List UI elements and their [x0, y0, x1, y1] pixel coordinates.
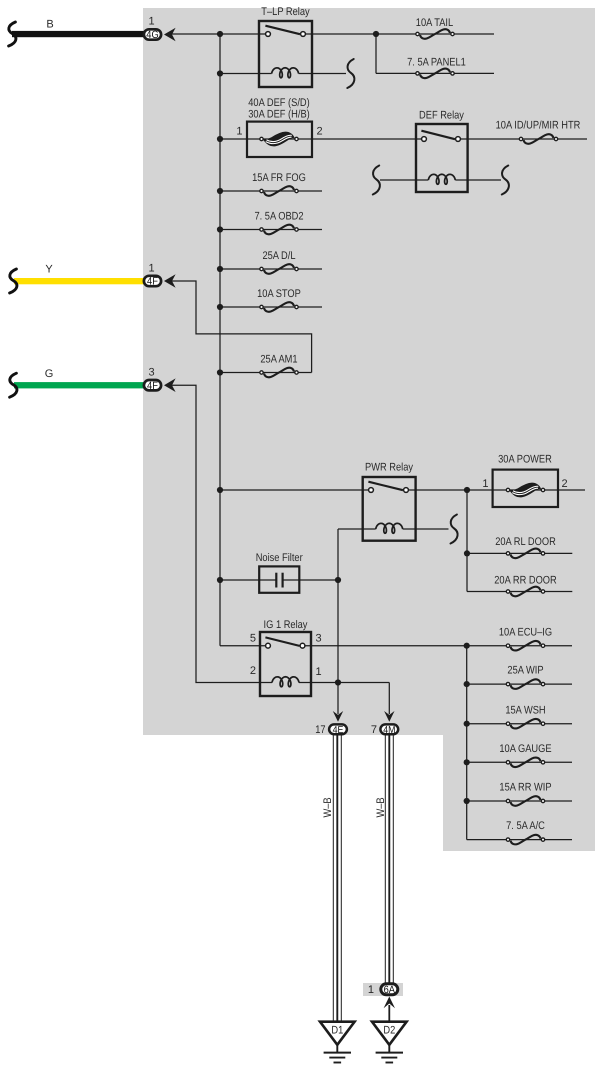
svg-text:17: 17 [315, 724, 325, 736]
svg-text:15A RR WIP: 15A RR WIP [499, 782, 551, 794]
svg-text:30A POWER: 30A POWER [498, 454, 552, 466]
svg-text:40A DEF (S/D): 40A DEF (S/D) [248, 97, 310, 109]
svg-text:T–LP Relay: T–LP Relay [261, 6, 310, 18]
svg-text:4M: 4M [383, 725, 395, 736]
svg-text:1: 1 [236, 126, 242, 138]
svg-text:4E: 4E [333, 725, 344, 736]
svg-text:7. 5A OBD2: 7. 5A OBD2 [254, 211, 303, 223]
svg-text:7: 7 [371, 724, 377, 736]
svg-text:4F: 4F [147, 276, 158, 288]
svg-text:7. 5A A/C: 7. 5A A/C [506, 820, 545, 832]
svg-text:10A GAUGE: 10A GAUGE [499, 743, 551, 755]
svg-text:IG 1 Relay: IG 1 Relay [264, 619, 308, 631]
svg-text:2: 2 [317, 126, 323, 138]
svg-text:1: 1 [368, 984, 374, 996]
svg-text:25A WIP: 25A WIP [507, 665, 543, 677]
svg-text:3: 3 [148, 367, 154, 379]
svg-text:1: 1 [482, 478, 488, 490]
svg-text:10A ID/UP/MIR HTR: 10A ID/UP/MIR HTR [496, 120, 581, 132]
svg-text:2: 2 [250, 665, 256, 677]
svg-text:W–B: W–B [322, 797, 334, 817]
svg-text:15A WSH: 15A WSH [505, 704, 545, 716]
svg-text:1: 1 [148, 16, 154, 28]
svg-text:7. 5A PANEL1: 7. 5A PANEL1 [407, 56, 466, 68]
svg-text:D1: D1 [331, 1024, 343, 1036]
svg-text:4F: 4F [147, 380, 158, 392]
svg-text:15A FR FOG: 15A FR FOG [252, 172, 306, 184]
svg-text:20A RR DOOR: 20A RR DOOR [494, 575, 557, 587]
svg-text:10A ECU–IG: 10A ECU–IG [499, 626, 552, 638]
svg-text:25A AM1: 25A AM1 [260, 354, 297, 366]
svg-text:10A TAIL: 10A TAIL [416, 17, 453, 29]
svg-text:1: 1 [148, 263, 154, 275]
svg-text:25A D/L: 25A D/L [262, 250, 295, 262]
svg-text:Noise Filter: Noise Filter [256, 552, 303, 564]
svg-text:4G: 4G [146, 29, 158, 41]
svg-text:30A DEF (H/B): 30A DEF (H/B) [248, 109, 310, 121]
svg-text:6A: 6A [384, 984, 396, 996]
svg-text:3: 3 [316, 633, 322, 645]
svg-text:B: B [46, 19, 53, 31]
svg-text:DEF Relay: DEF Relay [419, 110, 464, 122]
svg-text:2: 2 [562, 478, 568, 490]
svg-text:5: 5 [250, 633, 256, 645]
svg-text:G: G [45, 368, 54, 380]
svg-text:20A RL DOOR: 20A RL DOOR [495, 536, 556, 548]
svg-text:W–B: W–B [375, 797, 387, 817]
svg-text:10A STOP: 10A STOP [257, 288, 301, 300]
svg-text:Y: Y [45, 264, 53, 276]
svg-text:PWR Relay: PWR Relay [365, 462, 413, 474]
svg-text:1: 1 [316, 666, 322, 678]
svg-text:D2: D2 [383, 1024, 395, 1036]
